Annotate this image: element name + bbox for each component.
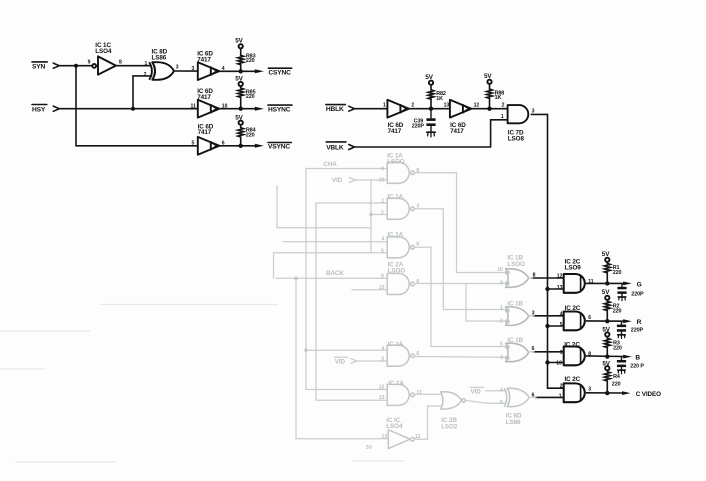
wire buffer output to CSYNC arrow — [219, 70, 256, 72]
wire VBLK to AND pin 1 — [354, 120, 508, 147]
wire A3 output to B3 (faded) — [415, 247, 505, 346]
wire R88 to node — [489, 98, 491, 108]
wire into pin 10 — [548, 362, 564, 364]
resistor R83 — [238, 55, 244, 64]
nand gate IC 2A (A6, faded) — [387, 384, 414, 405]
svg-text:4: 4 — [381, 346, 384, 352]
svg-text:CSYNC: CSYNC — [268, 69, 291, 76]
svg-text:LSO4: LSO4 — [95, 48, 112, 55]
node VID label before XOR (faded) — [471, 387, 484, 395]
svg-text:10: 10 — [379, 178, 385, 184]
wire A2 vertical bus x316 (faded) — [316, 203, 387, 400]
node VID label (faded) — [335, 357, 348, 365]
wire buffer output to HSYNC arrow — [219, 108, 256, 110]
svg-text:SYN: SYN — [32, 64, 45, 71]
svg-text:5V: 5V — [602, 289, 610, 296]
wire R1 to G node — [606, 273, 608, 284]
svg-text:1: 1 — [383, 103, 386, 109]
svg-text:LSO9: LSO9 — [565, 265, 582, 272]
wire A2 pin 1 feed (faded) — [316, 202, 387, 204]
wire arrow to NAND pin 10 (faded) — [355, 179, 387, 181]
svg-text:8: 8 — [119, 60, 122, 66]
junction R88 node — [487, 107, 491, 111]
artifact streak 2 — [0, 330, 90, 332]
node HSY input label — [32, 105, 47, 114]
node SYN input label — [32, 62, 47, 71]
svg-text:HSY: HSY — [32, 107, 46, 114]
wire 5V to resistor R1 — [606, 262, 608, 263]
wire XOR output to buffer pin 3 — [174, 70, 198, 72]
svg-text:R4: R4 — [613, 374, 620, 380]
wire CHA vertical bus (faded) — [306, 169, 387, 390]
wire R3 to B node — [606, 348, 608, 357]
svg-text:LSO8: LSO8 — [508, 136, 525, 143]
junction on blanking line (pin 10) — [545, 360, 549, 364]
power 5V terminal (R3) — [602, 326, 610, 336]
svg-text:220: 220 — [246, 58, 255, 64]
inverter IC 1C LS04 (A7, faded) — [388, 430, 414, 449]
wire A2 pin 2 from x371 bus (faded) — [371, 214, 387, 216]
junction HSY node to XOR — [131, 107, 135, 111]
svg-text:5V: 5V — [235, 37, 243, 44]
wire BACK to A4 pin 9 (faded) — [276, 277, 387, 279]
svg-text:4: 4 — [500, 388, 503, 394]
arrow C VIDEO output — [622, 391, 631, 395]
power 5V terminal (R84) — [235, 114, 243, 125]
wire B2 output (faded tail) — [529, 315, 534, 317]
svg-text:B: B — [635, 355, 640, 362]
wire A1 output to B1 (faded) — [415, 173, 505, 273]
and gate U10 IC 2C (R) — [564, 312, 585, 331]
wire left stub down to BACK line (faded) — [273, 253, 275, 278]
inner line IC 2C (C VIDEO) — [580, 385, 582, 401]
wire A2 output to B2 (faded) — [415, 209, 505, 310]
svg-text:220P: 220P — [412, 123, 425, 129]
wire 5V to resistor R2 — [606, 300, 608, 301]
wire A5 output to B3 lower input (faded) — [415, 356, 505, 359]
node VSYNC label — [268, 143, 291, 151]
wire XOR output (faded tail) — [529, 396, 536, 398]
wire G output — [586, 282, 623, 284]
svg-text:13: 13 — [557, 285, 563, 291]
wire stub x277 (faded) — [277, 186, 371, 228]
svg-text:9: 9 — [88, 60, 91, 66]
svg-text:220: 220 — [246, 94, 255, 100]
svg-text:VBLK: VBLK — [326, 144, 344, 151]
arrow R output — [623, 319, 632, 323]
svg-text:220: 220 — [612, 382, 621, 388]
node HBLK input label — [326, 105, 345, 113]
wire A3 pin 5 feed (faded) — [274, 252, 388, 254]
nand gate IC 1A (A3, faded) — [387, 237, 414, 258]
resistor R1 — [604, 263, 610, 272]
wire R84 to VSYNC node — [240, 137, 242, 146]
junction on blanking line (pin 5) — [545, 324, 549, 328]
svg-text:7417: 7417 — [388, 128, 402, 135]
buffer U5 IC 6D 7417 (VSYNC) — [198, 137, 220, 155]
input terminal VBLK — [349, 145, 355, 150]
svg-text:R: R — [637, 319, 642, 326]
svg-text:6: 6 — [588, 315, 591, 321]
buffer U7 IC 6D 7417 (second) — [450, 100, 472, 118]
artifact smudge bottom-left — [15, 461, 115, 463]
wire AND output down right column — [531, 114, 563, 388]
inner line IC 2C (B) — [580, 348, 582, 364]
and gate U11 IC 2C (B) — [564, 347, 585, 366]
junction R node — [605, 319, 609, 323]
buffer U3 IC 6D 7417 (CSYNC) — [198, 62, 220, 80]
wire VID to A5 pin 5 (faded) — [357, 360, 388, 362]
svg-text:LS86: LS86 — [152, 55, 167, 62]
svg-text:4: 4 — [500, 355, 503, 361]
svg-text:10: 10 — [497, 267, 503, 273]
svg-text:IC 2C: IC 2C — [565, 305, 581, 312]
svg-text:220: 220 — [613, 270, 622, 276]
resistor R82 — [428, 90, 434, 99]
xor gate U2 IC 8D LS86 — [149, 62, 174, 80]
svg-text:5: 5 — [560, 322, 563, 328]
inner line IC 2C (R) — [580, 313, 582, 329]
svg-text:220: 220 — [613, 308, 622, 314]
wire A4 output to B1 lower input (faded) — [415, 283, 505, 285]
wire R82 to node — [430, 99, 432, 109]
svg-text:C VIDEO: C VIDEO — [636, 391, 661, 398]
wire R83 to CSYNC node — [240, 65, 242, 72]
svg-text:1: 1 — [559, 393, 562, 399]
wire enable vertical x371 (faded) — [370, 180, 372, 253]
wire buffer to second buffer — [409, 108, 450, 110]
capacitor 220P with ground (R) — [617, 321, 626, 339]
wire 5V to resistor R4 — [606, 370, 608, 371]
svg-text:7417: 7417 — [450, 128, 464, 135]
nand gate IC 1A (A2, faded) — [387, 198, 414, 219]
wire R4 to C VIDEO node — [606, 381, 608, 393]
wire A6 output to IC 2B (faded) — [415, 393, 441, 395]
svg-text:2: 2 — [500, 319, 503, 325]
svg-text:220: 220 — [246, 132, 255, 138]
svg-text:3: 3 — [588, 387, 591, 393]
artifact streak 3 — [0, 368, 45, 370]
svg-text:13: 13 — [444, 103, 450, 109]
wire B1 output (faded tail) — [529, 277, 533, 279]
svg-text:7417: 7417 — [197, 94, 211, 101]
node CSYNC label — [268, 68, 291, 76]
input terminal HSY — [53, 106, 59, 111]
wire inverter output to XOR pin 1 — [116, 65, 151, 67]
svg-text:12: 12 — [379, 384, 385, 390]
junction x371 at A2 (faded) — [369, 213, 373, 217]
and gate U9 IC 2C LS09 (G) — [564, 274, 585, 293]
junction G node — [605, 281, 609, 285]
nor gate IC 1B (B2, faded) — [506, 307, 529, 326]
power 5V terminal (R83) — [235, 37, 243, 48]
power 5V terminal (R88) — [484, 73, 492, 84]
svg-text:1: 1 — [145, 61, 148, 67]
buffer U4 IC 6D 7417 (HSYNC) — [198, 100, 220, 118]
wire 5V to resistor R84 — [240, 125, 242, 128]
junction HSYNC node — [239, 107, 243, 111]
resistor R85 — [238, 88, 244, 97]
wire 5V to resistor R83 — [240, 49, 242, 56]
wire XOR pin 2 from HSY line — [133, 76, 152, 109]
svg-text:BACK: BACK — [326, 270, 344, 277]
junction on blanking line (pin 13) — [545, 287, 549, 291]
wire A3 pin 4 feed (faded) — [283, 241, 387, 243]
svg-text:VID: VID — [332, 177, 343, 184]
arrow B output — [623, 355, 632, 359]
inner line IC 2C (G) — [580, 275, 582, 291]
wire R2 to R node — [606, 311, 608, 322]
svg-text:IC 1B: IC 1B — [507, 301, 523, 308]
inverter U1 IC 1C LS04 — [92, 56, 116, 74]
buffer U6 IC 6D 7417 (HBLK) — [387, 100, 409, 118]
svg-text:2: 2 — [411, 103, 414, 109]
wire R output — [586, 320, 623, 322]
capacitor C39 with ground — [426, 109, 435, 132]
power 5V terminal (R4) — [602, 360, 610, 370]
junction C VIDEO node — [605, 391, 609, 395]
nor gate IC 1B (B3, faded) — [506, 343, 529, 362]
wire BACK bus down to inverter (faded) — [296, 278, 388, 438]
resistor R88 — [487, 89, 493, 98]
svg-text:5V: 5V — [366, 445, 373, 451]
svg-text:8: 8 — [533, 272, 536, 278]
wire 5V to resistor R82 — [430, 85, 432, 90]
svg-text:VID: VID — [471, 389, 482, 396]
svg-text:9: 9 — [500, 280, 503, 286]
svg-text:220P: 220P — [631, 292, 644, 298]
svg-text:IC 1A: IC 1A — [388, 231, 404, 238]
wire A4 pin 10 stub (faded) — [352, 289, 387, 291]
svg-text:7417: 7417 — [198, 129, 212, 136]
wire 5V to resistor R3 — [606, 337, 608, 339]
wire into pin 12 — [532, 277, 564, 279]
artifact streak 1 — [100, 304, 278, 306]
svg-text:5: 5 — [381, 357, 384, 363]
svg-text:5: 5 — [192, 141, 195, 147]
svg-text:220P: 220P — [631, 328, 644, 334]
svg-text:9: 9 — [560, 350, 563, 356]
svg-text:IC 1A: IC 1A — [388, 193, 404, 200]
svg-text:13: 13 — [382, 434, 388, 440]
and gate U12 IC 2C (C VIDEO) — [564, 383, 585, 402]
junction VSYNC node — [239, 144, 243, 148]
svg-text:IC 2C: IC 2C — [564, 341, 580, 348]
power 5V terminal (R82) — [425, 74, 433, 85]
junction CSYNC node — [239, 69, 243, 73]
svg-text:HSYNC: HSYNC — [268, 106, 291, 113]
and gate U8 IC 7D LS08 — [508, 105, 529, 123]
nor gate IC 1B (B1, faded) — [506, 269, 529, 288]
xor gate IC 8D LS86 (faded) — [504, 388, 529, 406]
arrow CSYNC output — [255, 69, 264, 73]
power 5V terminal (R85) — [235, 76, 243, 87]
nand gate IC 1A (A1, faded) — [387, 162, 414, 183]
nor gate IC 2B LS02 (faded) — [441, 392, 466, 409]
input terminal HBLK — [349, 106, 355, 111]
svg-text:3: 3 — [532, 108, 535, 114]
svg-text:CHA: CHA — [323, 161, 337, 168]
wire into pin 4 — [533, 315, 564, 317]
svg-text:LSO2: LSO2 — [441, 423, 458, 430]
junction SYN node — [74, 64, 78, 68]
artifact smudge bottom — [352, 460, 405, 462]
svg-text:HBLK: HBLK — [326, 106, 344, 113]
input terminal second A1 input (faded) — [349, 178, 355, 183]
svg-text:1K: 1K — [495, 95, 502, 101]
wire A5 pin 4 from CHA bus (faded) — [306, 349, 387, 351]
ground symbol (C39) — [427, 132, 435, 137]
power 5V terminal (R2) — [602, 289, 610, 300]
junction BACK node (faded) — [294, 277, 298, 281]
svg-text:LSO4: LSO4 — [386, 423, 403, 430]
svg-text:3: 3 — [176, 64, 179, 70]
wire VID to XOR pin 4 (faded) — [486, 390, 505, 392]
wire second buffer to AND pin 2 — [471, 108, 507, 110]
nand gate IC 2A (A4, faded) — [387, 274, 414, 295]
svg-text:10: 10 — [556, 360, 562, 366]
node HSYNC label — [268, 105, 292, 113]
arrow VSYNC output — [255, 144, 264, 148]
svg-text:G: G — [637, 281, 642, 288]
wire C VIDEO output — [586, 392, 622, 394]
svg-text:9: 9 — [381, 166, 384, 172]
wire B2 lower input (faded) — [466, 284, 505, 322]
svg-text:5V: 5V — [602, 251, 610, 258]
wire B3 output (faded tail) — [529, 351, 534, 353]
nand gate IC 2A (A5, faded) — [387, 345, 414, 366]
wire buffer output to VSYNC arrow — [219, 145, 256, 147]
svg-text:11: 11 — [191, 103, 197, 109]
capacitor 220P with ground (B) — [617, 357, 626, 375]
svg-text:IC 2A: IC 2A — [388, 341, 404, 348]
wire IC 2B output to XOR pin 5 (faded) — [466, 400, 505, 403]
wire into pin 5 — [548, 325, 564, 327]
svg-text:220: 220 — [613, 346, 622, 352]
wire 5V to resistor R88 — [489, 84, 491, 89]
wire 5V to resistor R85 — [240, 86, 242, 88]
power 5V terminal (R1) — [602, 251, 610, 262]
svg-text:2: 2 — [381, 210, 384, 216]
wire SYN input to inverter — [59, 65, 93, 67]
resistor R3 — [604, 338, 610, 347]
svg-text:1: 1 — [381, 199, 384, 205]
svg-text:220 P: 220 P — [630, 364, 644, 370]
wire HSY to buffer pin 11 — [59, 108, 198, 110]
junction B node — [605, 354, 609, 358]
svg-text:2: 2 — [560, 384, 563, 390]
svg-text:LSOO: LSOO — [387, 159, 405, 166]
svg-text:3: 3 — [192, 66, 195, 72]
svg-text:VSYNC: VSYNC — [268, 144, 290, 151]
svg-text:5: 5 — [381, 248, 384, 254]
svg-text:1: 1 — [500, 305, 503, 311]
input terminal VID (faded) — [351, 359, 357, 364]
wire into pin 1 — [535, 396, 564, 398]
svg-text:10: 10 — [379, 285, 385, 291]
resistor R84 — [238, 128, 244, 137]
svg-text:LSOO: LSOO — [507, 261, 525, 268]
svg-text:7417: 7417 — [197, 56, 211, 63]
svg-text:12: 12 — [474, 103, 480, 109]
node VBLK input label — [326, 142, 346, 152]
svg-text:13: 13 — [379, 395, 385, 401]
svg-text:VID: VID — [335, 359, 346, 366]
svg-text:IC 2C: IC 2C — [565, 376, 581, 383]
svg-text:LS86: LS86 — [506, 419, 521, 426]
svg-text:11: 11 — [416, 390, 422, 396]
svg-text:IC 1B: IC 1B — [507, 337, 523, 344]
svg-text:2: 2 — [502, 103, 505, 109]
input terminal SYN — [53, 63, 59, 68]
wire into pin 13 — [548, 288, 564, 290]
wire R85 to HSYNC node — [240, 97, 242, 108]
arrow G output — [623, 282, 632, 286]
junction CHA bus at A5 (faded) — [304, 349, 308, 353]
svg-text:5: 5 — [500, 400, 503, 406]
arrow HSYNC output — [255, 107, 264, 111]
svg-text:1K: 1K — [436, 96, 443, 102]
capacitor 220P with ground (G) — [617, 283, 626, 301]
wire SYN node down to VSYNC buffer — [76, 66, 198, 146]
svg-text:IC 2A: IC 2A — [388, 380, 404, 387]
wire B output — [586, 355, 623, 358]
wire CHA to NAND pin 9 (faded) — [306, 168, 387, 170]
wire inverter output to IC 2B lower input (faded) — [414, 406, 440, 439]
svg-text:LSOO: LSOO — [388, 268, 406, 275]
svg-text:5: 5 — [500, 341, 503, 347]
svg-text:9: 9 — [381, 273, 384, 279]
junction C39 node — [429, 107, 433, 111]
resistor R2 — [604, 301, 610, 310]
wire HBLK to buffer pin 1 — [354, 108, 387, 110]
resistor R4 — [604, 372, 610, 381]
svg-text:4: 4 — [381, 237, 384, 243]
wire into pin 9 — [533, 351, 564, 353]
